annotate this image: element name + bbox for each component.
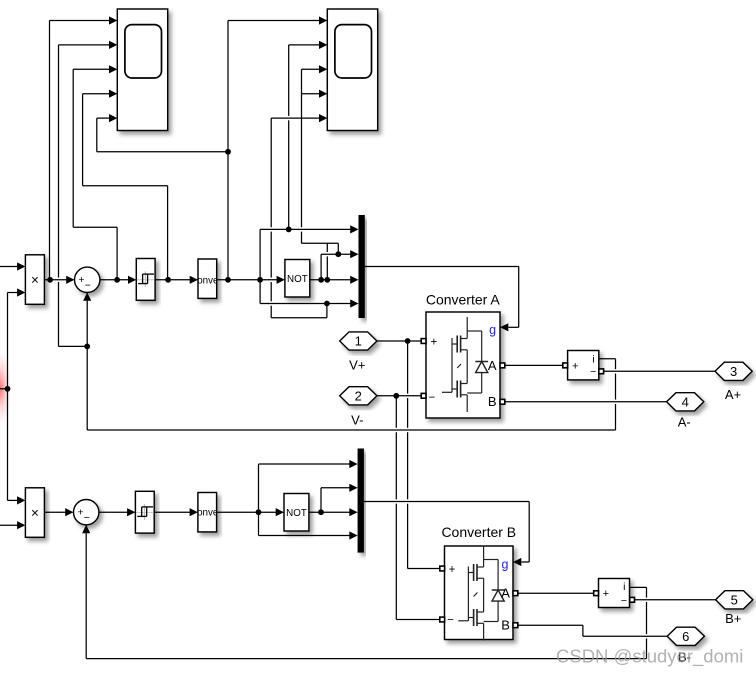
svg-text:i: i [592, 353, 594, 365]
wire not1 to mux1 in3 [310, 279, 351, 281]
wire product2 input 1 [8, 499, 18, 501]
svg-text:−: − [590, 366, 596, 378]
svg-text:+: + [77, 507, 83, 519]
svg-text:3: 3 [730, 364, 737, 379]
wire junction to mux1 in1 [259, 229, 261, 279]
scope Scope2 body [327, 9, 377, 131]
svg-text:CSDN @studyer_domi: CSDN @studyer_domi [556, 646, 743, 668]
svg-text:+: + [572, 360, 578, 372]
wire V- branch to converter B - [395, 396, 397, 428]
logical operator block NOT2 [284, 494, 309, 532]
sum block Sum1 [75, 267, 100, 292]
svg-text:4: 4 [682, 394, 689, 409]
svg-text:Converter A: Converter A [426, 292, 501, 308]
wire not1 out tap upward [326, 243, 328, 252]
wire product2 input 2 [0, 524, 17, 526]
relay block Relay1 [136, 259, 155, 301]
wire sensor A current feedback [599, 358, 616, 360]
wire scope2 in1 from convert1 [228, 20, 319, 22]
svg-text:B: B [488, 394, 497, 409]
input port 1 V+ [340, 332, 377, 350]
wire relay1 to convert1 [155, 279, 190, 281]
wire sum1 to relay1 [100, 279, 128, 281]
wire convert2 to not2 [217, 511, 276, 513]
wire V+ to converter A + [377, 340, 421, 342]
wire sum2 to relay2 [99, 511, 128, 513]
svg-text:−: − [84, 512, 90, 524]
svg-text:+: + [449, 564, 456, 576]
wire scope2 in2 from mux1 in1 [288, 45, 290, 116]
svg-text:g: g [502, 557, 509, 571]
logical operator block NOT1 [285, 260, 310, 298]
wire scope2 in3/in4 riser [302, 242, 339, 244]
mux Mux2 [358, 449, 364, 553]
svg-text:i: i [623, 581, 625, 593]
product block P2 (x) [25, 488, 44, 538]
product block P1 (x) [25, 255, 44, 304]
svg-text:Converter B: Converter B [441, 524, 516, 540]
svg-text:2: 2 [355, 388, 362, 403]
svg-text:×: × [31, 505, 39, 520]
wire not2 out to mux2 in2 [320, 488, 322, 512]
wire converter A out B to port 4 [505, 401, 667, 403]
mux Mux1 [359, 215, 365, 318]
svg-text:−: − [85, 280, 91, 292]
wire not2 to mux2 in3 [309, 511, 350, 513]
svg-text:NOT: NOT [287, 274, 308, 285]
svg-text:A-: A- [678, 415, 691, 430]
data type conversion block Convert2 [198, 493, 217, 532]
sum block Sum2 [74, 500, 99, 525]
svg-text:V+: V+ [349, 358, 365, 373]
wire convert1 to not1 [217, 279, 277, 281]
wire product2 to sum2 [44, 511, 65, 513]
svg-text:B+: B+ [725, 611, 741, 626]
wire scope2 in5 from mux1 in4 [326, 304, 328, 318]
wire product1 to sum1 [44, 279, 66, 281]
svg-text:A: A [488, 358, 497, 373]
wire sensor B - to port 5 [635, 599, 716, 601]
wire converter A out A to sensor A [505, 364, 563, 366]
output port 6 B- [667, 627, 704, 645]
svg-text:V-: V- [351, 412, 363, 427]
svg-text:A: A [501, 586, 510, 601]
svg-text:−: − [447, 614, 454, 626]
svg-text:1: 1 [355, 334, 362, 349]
wire relay2 to convert2 [154, 511, 190, 513]
wire V- to converter A - [377, 395, 421, 397]
wire junction to mux1 in4 [259, 280, 261, 304]
svg-text:NOT: NOT [286, 508, 307, 519]
svg-text:B: B [501, 617, 510, 632]
wire mux2 out to converter B gate [364, 501, 529, 503]
wire scope1 in2 from current A feedback [58, 45, 60, 278]
wire scope1 in5 from convert1 [227, 21, 229, 280]
svg-text:6: 6 [682, 629, 689, 644]
scope Scope1 body [117, 9, 167, 131]
svg-text:+: + [78, 274, 84, 286]
svg-text:+: + [603, 588, 609, 600]
wire junction2 to mux2 in4 [258, 512, 260, 535]
wire mux1 out to converter A gate [365, 266, 519, 268]
input port 2 V- [340, 387, 377, 405]
svg-text:5: 5 [731, 592, 738, 607]
svg-text:A+: A+ [725, 387, 741, 402]
wire left source riser [7, 293, 9, 501]
output port 5 B+ [716, 591, 753, 609]
svg-text:−: − [428, 392, 435, 404]
data type conversion block Convert1 [198, 259, 217, 298]
wire product1 input 1 [0, 266, 17, 268]
wire V+ branch to converter B + [407, 341, 409, 394]
svg-text:g: g [489, 323, 496, 337]
wire product1 input 2 [8, 292, 18, 294]
svg-text:−: − [621, 595, 627, 607]
highlight glow at left edge [0, 346, 12, 430]
wire converter B out A to sensor B [518, 592, 594, 594]
output port 3 A+ [715, 362, 752, 380]
svg-text:×: × [31, 272, 39, 287]
svg-text:+: + [430, 337, 437, 349]
wire scope1 in3 from sum1 [116, 227, 118, 280]
wire converter B out B to port 6 [518, 624, 583, 626]
wire sensor A - to port 3 [604, 370, 715, 372]
current measurement block Iab B [599, 579, 630, 608]
wire scope1 in4 from relay1 [167, 186, 169, 280]
output port 4 A- [667, 393, 704, 411]
wire scope1 in1 from product1 [49, 21, 51, 280]
current measurement block Iab A [568, 351, 599, 380]
wire sensor B current feedback [630, 586, 647, 588]
wire not1 out to mux1 in2 [320, 254, 322, 280]
wire junction2 to mux2 in1 [258, 464, 260, 512]
relay block Relay2 [135, 491, 154, 533]
